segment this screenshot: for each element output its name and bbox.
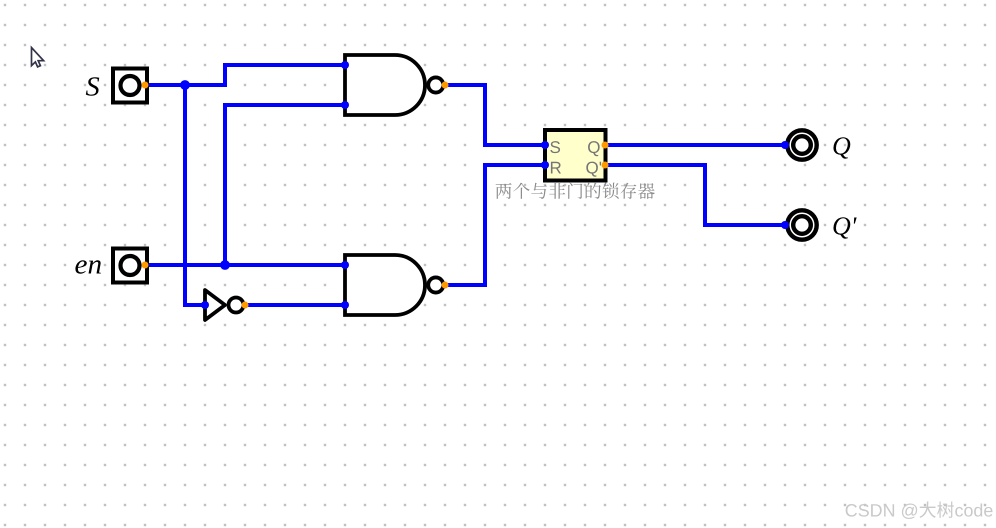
input pin S (113, 69, 147, 103)
junction at en branch (220, 260, 230, 270)
node top NAND input B (341, 101, 349, 109)
wire NOT output to bottom NAND input B (245, 303, 345, 307)
node top NAND input A (341, 61, 349, 69)
wire S pin to top NAND input A (145, 65, 345, 85)
junction at S branch (180, 80, 190, 90)
NOT gate U3 (205, 290, 244, 320)
latch caption (496, 183, 655, 199)
wire S branch down to NOT gate input (185, 85, 205, 305)
port dot bottom NAND output (442, 282, 449, 289)
svg-text:Q: Q (587, 138, 600, 157)
svg-text:Q: Q (832, 132, 851, 161)
node latch S input (541, 141, 549, 149)
port dot pin S (142, 82, 149, 89)
wire en branch up to top NAND input B (225, 105, 345, 265)
port dot pin en (142, 262, 149, 269)
svg-text:R: R (550, 159, 562, 178)
wire latch Q' to output pin Q' (605, 165, 785, 225)
node output pin Q' (781, 221, 789, 229)
port dot latch Q (602, 142, 609, 149)
svg-text:CSDN @: CSDN @ (845, 501, 919, 521)
wire en pin to bottom NAND input A (145, 263, 345, 267)
mouse cursor (32, 48, 44, 67)
svg-text:Q': Q' (832, 212, 857, 241)
svg-text:code: code (955, 501, 994, 521)
node NOT gate input (201, 301, 209, 309)
NAND gate U1 (top) (345, 55, 443, 115)
svg-text:Q': Q' (586, 159, 602, 178)
svg-text:S: S (550, 138, 561, 157)
node bottom NAND input A (341, 261, 349, 269)
node output pin Q (781, 141, 789, 149)
latch subcircuit U4 (545, 130, 606, 181)
port dot NOT output (242, 302, 249, 309)
NAND gate U2 (bottom) (345, 255, 443, 315)
input pin en (113, 249, 147, 283)
node bottom NAND input B (341, 301, 349, 309)
svg-text:en: en (75, 250, 103, 281)
node latch R input (541, 161, 549, 169)
port dot top NAND output (442, 82, 449, 89)
output pin Q' (787, 210, 816, 239)
port dot latch Q' (602, 162, 609, 169)
wire latch Q to output pin Q (605, 143, 785, 147)
wire top NAND output to latch S (445, 85, 545, 145)
svg-text:S: S (86, 71, 100, 102)
wire bottom NAND output to latch R (445, 165, 545, 285)
output pin Q (787, 130, 816, 159)
